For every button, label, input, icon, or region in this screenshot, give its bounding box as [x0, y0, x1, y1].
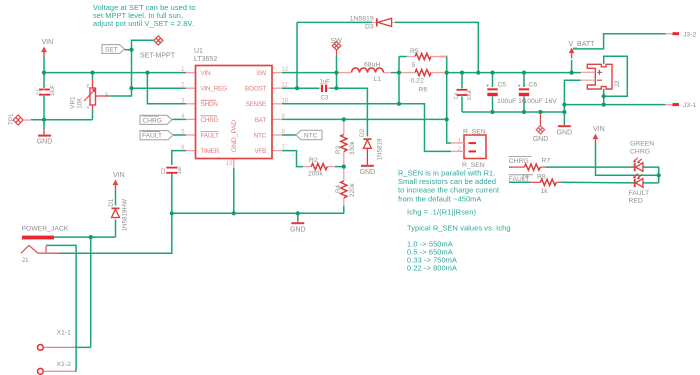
- wire U1 pin 9 BAT: [282, 118, 447, 120]
- test point TP1: [13, 115, 23, 125]
- wire R5 R6 left vertical: [398, 57, 400, 104]
- junction: [602, 103, 606, 107]
- wire SET to test point: [132, 40, 155, 49]
- terminal X1-2: [38, 368, 44, 374]
- svg-text:SENSE: SENSE: [246, 101, 266, 108]
- svg-text:J2: J2: [614, 80, 621, 87]
- svg-text:A: A: [87, 105, 90, 110]
- svg-text:CHRG: CHRG: [509, 158, 529, 165]
- svg-text:CHRG: CHRG: [630, 148, 650, 155]
- tag NTC: [296, 130, 322, 139]
- svg-text:NTC: NTC: [254, 132, 267, 139]
- wire V_BATT supply: [571, 60, 573, 73]
- junction: [460, 71, 464, 75]
- supply V_BATT: [569, 48, 575, 59]
- svg-text:68uH: 68uH: [364, 62, 380, 69]
- svg-text:R2: R2: [309, 157, 318, 164]
- svg-text:GND: GND: [360, 169, 376, 176]
- junction: [89, 235, 93, 239]
- wire R5 right to BAT net: [439, 57, 447, 120]
- wire jack sleeve to D1: [54, 236, 116, 238]
- svg-text:Typical R_SEN values vs. Ichg: Typical R_SEN values vs. Ichg: [407, 224, 511, 233]
- svg-text:S: S: [105, 92, 108, 97]
- op-amp U1 LT3652 charger IC: [196, 66, 273, 159]
- svg-text:GREEN: GREEN: [630, 141, 654, 148]
- svg-text:100uF 16: 100uF 16: [497, 98, 526, 105]
- wire D2 anode to GND: [366, 148, 368, 165]
- wire D1 cathode to VIN: [115, 191, 117, 206]
- R3 bottom stub: [343, 152, 345, 167]
- R_SEN pin 1 stub: [451, 142, 464, 144]
- wire U1 pin 11 BOOST to C3: [282, 87, 319, 89]
- wire GND test point drop: [539, 112, 541, 125]
- svg-text:J3-1: J3-1: [683, 102, 696, 109]
- wire J3-1 net: [564, 104, 665, 106]
- svg-text:CHRG: CHRG: [143, 117, 162, 124]
- svg-text:SW: SW: [256, 70, 267, 77]
- svg-text:TP1: TP1: [8, 113, 15, 125]
- svg-text:FAULT: FAULT: [201, 132, 220, 139]
- R_SEN pin 2 stub: [451, 150, 464, 152]
- svg-text:BOOST: BOOST: [245, 86, 266, 93]
- svg-text:1uF: 1uF: [320, 80, 331, 86]
- wire GND rail to R4: [343, 206, 345, 214]
- wire SW test point: [336, 56, 338, 73]
- test point SW: [332, 42, 341, 51]
- svg-text:U1: U1: [194, 48, 203, 55]
- wire C1 to GND: [43, 96, 45, 129]
- svg-text:BAT: BAT: [255, 117, 267, 124]
- wire SW to C3: [336, 73, 338, 89]
- svg-text:C6: C6: [529, 82, 538, 89]
- svg-text:12: 12: [282, 67, 289, 73]
- svg-text:E: E: [87, 84, 90, 89]
- wire U1 pin 12 SW to L1: [282, 72, 337, 74]
- wire jack tip to GND rail: [59, 213, 172, 253]
- wire L1 to R5 R6 node: [391, 72, 399, 74]
- capacitor C2 1uF: [166, 167, 177, 174]
- R2 left stub: [303, 166, 312, 168]
- R4 bottom stub: [343, 198, 345, 206]
- wire LED anode vertical: [658, 167, 660, 183]
- svg-text:1N5819: 1N5819: [377, 138, 384, 161]
- svg-text:R7: R7: [542, 158, 551, 165]
- supply VIN LEDs: [593, 134, 599, 145]
- junction: [342, 117, 346, 121]
- svg-text:R8: R8: [537, 174, 546, 181]
- resistor R8: [540, 179, 556, 185]
- wire C4 top: [461, 73, 463, 89]
- svg-text:C1: C1: [36, 89, 42, 96]
- junction: [445, 71, 449, 75]
- junction: [490, 71, 494, 75]
- svg-text:220k: 220k: [349, 182, 356, 197]
- ground GND C1: [38, 135, 51, 137]
- tag FAULT: [140, 131, 173, 140]
- terminal X1-1: [38, 345, 44, 351]
- svg-text:X1-1: X1-1: [57, 330, 72, 337]
- junction: [334, 71, 338, 75]
- C1 stub: [43, 88, 45, 90]
- connector J1 POWER_JACK: [22, 236, 54, 240]
- wire BOOST to D3: [297, 21, 372, 23]
- pin 13 stub: [233, 159, 235, 169]
- svg-text:VIN_REG: VIN_REG: [201, 86, 228, 93]
- svg-text:GND: GND: [557, 130, 573, 137]
- R7 left stub: [512, 166, 525, 168]
- svg-text:5: 5: [412, 62, 416, 69]
- VR1 top stub: [92, 80, 94, 88]
- svg-text:SET-MPPT: SET-MPPT: [140, 53, 176, 60]
- wire VR1 bottom: [92, 109, 94, 120]
- svg-text:J3-2: J3-2: [683, 31, 696, 38]
- L1 right stub: [384, 72, 392, 74]
- C3 right stub: [327, 87, 329, 89]
- junction: [657, 173, 661, 177]
- D3 left stub: [372, 21, 376, 23]
- svg-text:SW: SW: [331, 38, 343, 45]
- junction: [522, 71, 526, 75]
- svg-text:D1: D1: [108, 198, 115, 207]
- svg-text:GND_PAD: GND_PAD: [231, 120, 238, 152]
- R8 left stub: [531, 181, 541, 183]
- svg-text:R3: R3: [335, 145, 342, 154]
- wire J2 minus: [564, 80, 580, 104]
- svg-text:10: 10: [282, 98, 289, 104]
- C3 left stub: [319, 87, 321, 89]
- svg-text:FAULT: FAULT: [509, 176, 530, 183]
- wire U1 pin 8 to NTC tag: [282, 134, 296, 136]
- wire GND rail to GND symbol: [297, 213, 299, 219]
- ground GND D2: [361, 165, 374, 167]
- svg-text:VIN: VIN: [42, 39, 54, 46]
- GND stub: [563, 124, 565, 126]
- wire C3 to SW node: [330, 87, 337, 89]
- wire C4 bottom: [461, 96, 463, 112]
- wire BAT to R_SEN pin 1: [447, 119, 451, 143]
- svg-text:V_BATT: V_BATT: [569, 41, 596, 48]
- svg-text:330k: 330k: [349, 140, 356, 155]
- svg-text:1N5819: 1N5819: [350, 16, 374, 23]
- junction: [562, 110, 566, 114]
- junction: [334, 86, 338, 90]
- junction: [296, 211, 300, 215]
- capacitor C6 100uF polarized: [519, 88, 529, 96]
- wire C2 to GND rail: [171, 174, 173, 214]
- wire VIN supply to C1: [43, 57, 45, 88]
- svg-text:POWER_JACK: POWER_JACK: [22, 226, 69, 233]
- svg-text:1k: 1k: [541, 188, 549, 195]
- wire red LED anode: [643, 182, 659, 184]
- junction: [397, 102, 401, 106]
- junction: [145, 71, 149, 75]
- junction: [42, 71, 46, 75]
- junction: [490, 110, 494, 114]
- svg-text:+: +: [486, 84, 489, 90]
- X1-2 stub: [44, 370, 76, 372]
- svg-text:200k: 200k: [308, 171, 323, 178]
- wire C5 bottom: [492, 97, 494, 113]
- svg-text:L1: L1: [374, 76, 382, 83]
- svg-text:R5: R5: [410, 48, 419, 55]
- J3-1 pin stub: [666, 104, 673, 106]
- potentiometer VR1 10K: [90, 88, 96, 105]
- wire SENSE to R_SEN pin 2: [399, 104, 451, 152]
- wire VR1 top: [92, 73, 94, 80]
- svg-text:TIMER: TIMER: [201, 148, 220, 155]
- junction: [562, 103, 566, 107]
- wire U1 pin 13 to GND rail: [233, 168, 235, 213]
- junction: [445, 117, 449, 121]
- wire green LED anode: [643, 167, 659, 175]
- wire SET vertical to wiper: [110, 50, 132, 96]
- svg-text:1uF: 1uF: [177, 166, 183, 175]
- wire C6 top: [523, 73, 525, 87]
- wire to R5 left: [399, 56, 407, 58]
- wire VIN rail to U1 pin 1: [44, 72, 186, 74]
- inductor L1 68uH: [352, 68, 384, 73]
- capacitor C4 10uF: [457, 89, 468, 96]
- D3 right stub: [392, 21, 395, 23]
- resistor R_SEN footprint: [464, 135, 486, 159]
- ground GND battery: [558, 125, 571, 127]
- svg-text:VR1: VR1: [69, 96, 76, 109]
- ground GND rail: [291, 222, 304, 224]
- resistor R4: [341, 181, 347, 198]
- wire J2 tab loop: [604, 56, 628, 96]
- resistor R6: [415, 70, 431, 76]
- svg-text:VIN: VIN: [113, 172, 125, 179]
- resistor R2: [311, 164, 327, 170]
- diode D1 1N5819HW: [112, 208, 120, 218]
- R3 top stub: [343, 119, 345, 134]
- resistor R5: [415, 53, 431, 59]
- svg-text:GND: GND: [37, 139, 53, 146]
- pad J3-2: [673, 32, 680, 35]
- junction: [129, 86, 133, 90]
- junction: [522, 110, 526, 114]
- LED green CHRG: [634, 163, 643, 172]
- wire V_BATT to J3-2: [573, 34, 666, 49]
- resistor R3: [341, 135, 347, 152]
- svg-text:VFB: VFB: [254, 148, 266, 155]
- svg-text:C3: C3: [321, 96, 329, 102]
- wire U1 pin 10 SENSE: [282, 103, 399, 105]
- svg-text:D2: D2: [359, 128, 366, 137]
- junction: [476, 71, 480, 75]
- wire D1 anode: [115, 220, 117, 238]
- VR1 wiper arrow: [84, 88, 97, 101]
- wire U1 pin 7 VFB to R2: [282, 151, 303, 167]
- svg-text:from the default ~450mA: from the default ~450mA: [398, 194, 481, 203]
- svg-text:RED: RED: [629, 198, 643, 205]
- svg-text:SET: SET: [105, 47, 118, 54]
- U1 pin stubs: [186, 73, 282, 151]
- wire SET tag to node: [125, 49, 132, 51]
- svg-text:GND: GND: [533, 136, 549, 143]
- junction: [170, 211, 174, 215]
- wire to GND symbol: [563, 105, 565, 124]
- capacitor C5 100uF polarized: [487, 88, 497, 96]
- svg-text:VIN: VIN: [201, 70, 212, 77]
- wire TP1 / C1 / VR1 bottom: [31, 119, 93, 121]
- wire GND rail caps: [462, 111, 564, 113]
- junction: [538, 110, 542, 114]
- wire X1-2: [75, 370, 76, 372]
- wire VIN to U1 pin 3 SHDN: [147, 73, 186, 104]
- wire jack sleeve to X1-1: [90, 237, 92, 347]
- diode D3 1N5819: [376, 18, 392, 26]
- svg-text:10uF: 10uF: [50, 85, 56, 96]
- TP1 stub: [23, 119, 31, 121]
- wire VBAT rail: [447, 72, 581, 74]
- wire jack switch to X1-2: [46, 245, 76, 371]
- svg-text:0.22: 0.22: [411, 78, 424, 85]
- X1-1 stub: [44, 346, 76, 348]
- junction: [602, 94, 606, 98]
- L1 left stub: [337, 72, 352, 74]
- diode D2 1N5819: [363, 138, 371, 148]
- VR1 wiper stub: [96, 95, 111, 97]
- junction: [295, 86, 299, 90]
- wire R8 to red LED: [561, 181, 634, 184]
- connector J2 battery JST: [587, 64, 612, 89]
- wire TIMER to C2: [172, 151, 186, 165]
- svg-text:R_SEN: R_SEN: [463, 128, 486, 135]
- svg-text:NTC: NTC: [304, 133, 318, 140]
- J3-2 pin stub: [666, 33, 673, 35]
- tag SET: [102, 45, 125, 54]
- supply VIN top-left: [41, 47, 47, 58]
- wire SW node to D2 cathode: [337, 88, 368, 136]
- svg-text:SHDN: SHDN: [201, 101, 219, 108]
- svg-text:CHRG: CHRG: [201, 117, 219, 124]
- R5 right stub: [431, 56, 447, 58]
- resistor R7: [524, 164, 540, 170]
- svg-text:R_SEN: R_SEN: [462, 162, 485, 169]
- wire CHRG tag to pin 4: [172, 118, 186, 120]
- svg-text:100uF 16V: 100uF 16V: [524, 98, 558, 105]
- wire D3 cathode to BOOST: [296, 22, 298, 88]
- LED red FAULT: [634, 179, 643, 188]
- R6 right stub: [431, 72, 447, 74]
- svg-text:X1-2: X1-2: [57, 361, 72, 368]
- R4 top stub: [343, 167, 345, 181]
- wire GND stub C1: [43, 129, 45, 135]
- svg-text:R4: R4: [335, 184, 342, 193]
- R6 left stub: [399, 72, 415, 74]
- ground test point GND: [536, 126, 544, 134]
- junction: [342, 165, 346, 169]
- wire GND rail: [172, 212, 344, 214]
- svg-text:FAULT: FAULT: [142, 133, 162, 140]
- wire J2 tab to J3-1 net: [603, 96, 605, 104]
- svg-text:adjust pot until V_SET = 2.8V.: adjust pot until V_SET = 2.8V.: [93, 19, 194, 28]
- wire D3 anode to VBAT rail: [395, 22, 478, 72]
- capacitor C3 1uF boost: [321, 85, 327, 92]
- svg-text:FAULT: FAULT: [629, 190, 650, 197]
- svg-text:10K: 10K: [76, 97, 83, 109]
- svg-text:1N5819HW: 1N5819HW: [122, 199, 129, 232]
- capacitor C1 10uF: [39, 89, 50, 96]
- svg-text:LT3652: LT3652: [194, 56, 217, 63]
- junction: [397, 71, 401, 75]
- svg-text:C5: C5: [498, 82, 507, 89]
- wire R7 to green LED: [546, 166, 634, 168]
- svg-text:D3: D3: [365, 24, 374, 31]
- wire GND stub: [297, 220, 299, 223]
- svg-text:VIN: VIN: [593, 126, 605, 133]
- test point SET-MPPT: [154, 36, 163, 45]
- R5 left stub: [407, 56, 415, 58]
- wire VIN to LED anodes: [596, 144, 659, 176]
- junction: [90, 71, 94, 75]
- wire SET to U1 pin 2 VIN_REG: [132, 87, 187, 89]
- tag CHRG: [140, 115, 172, 124]
- junction: [232, 211, 236, 215]
- svg-text:10uF: 10uF: [467, 89, 473, 100]
- R7 right stub: [540, 166, 546, 168]
- svg-text:13: 13: [226, 161, 233, 167]
- svg-text:11: 11: [282, 83, 289, 89]
- wire X1-1: [75, 346, 91, 348]
- supply VIN D1: [113, 180, 119, 191]
- junction: [570, 71, 574, 75]
- junction: [129, 48, 133, 52]
- wire FAULT label: [509, 181, 531, 183]
- svg-text:C4: C4: [454, 93, 460, 100]
- svg-text:C2: C2: [161, 168, 167, 175]
- wire FAULT tag to pin 5: [173, 134, 186, 136]
- junction: [42, 118, 46, 122]
- wire C6 bottom: [523, 97, 525, 113]
- pad J3-1: [673, 103, 680, 106]
- R2 right stub: [327, 166, 335, 168]
- svg-text:0.22 -> 800mA: 0.22 -> 800mA: [407, 264, 457, 273]
- R8 right stub: [557, 181, 562, 183]
- svg-text:+: +: [518, 84, 521, 90]
- wire R2 to divider node: [335, 166, 344, 168]
- wire CHRG label: [509, 166, 512, 168]
- VR1 bottom stub: [92, 105, 94, 109]
- svg-text:Ichg = .1/(R1||Rsen): Ichg = .1/(R1||Rsen): [407, 208, 476, 217]
- wire C5 top: [492, 73, 494, 87]
- svg-text:J1: J1: [22, 257, 29, 264]
- svg-text:R6: R6: [419, 87, 428, 94]
- SW test point stub: [336, 50, 338, 56]
- svg-text:GND: GND: [290, 227, 306, 234]
